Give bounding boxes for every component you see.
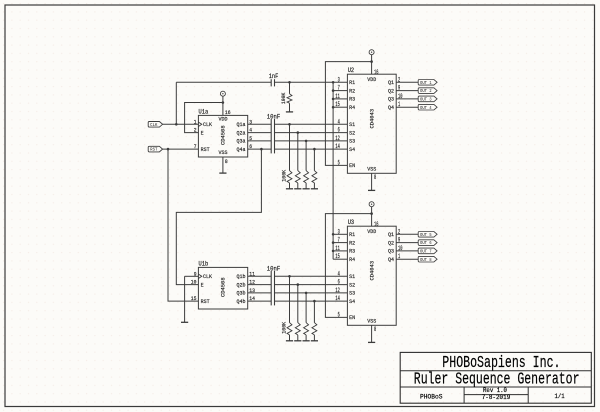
svg-text:11: 11 [335,245,340,252]
wire U1a E to VDD [185,103,223,133]
svg-text:VDD: VDD [219,116,228,123]
svg-text:12: 12 [335,135,340,142]
svg-text:100K: 100K [280,92,287,104]
svg-text:R2: R2 [349,87,355,94]
svg-text:OUT: OUT [420,240,427,246]
svg-text:S4: S4 [349,298,355,305]
junction R bus at U2 R4 [332,106,335,109]
svg-text:15: 15 [335,101,340,108]
svg-text:Rev 1.0: Rev 1.0 [483,387,507,394]
svg-text:3: 3 [338,228,340,235]
resistors R10-R13 100K pull-downs (lower bank) [281,276,317,335]
junction R bus at U3 R3 [332,250,335,253]
title block frame [400,352,591,403]
wires 10nF caps to U2 S inputs [275,123,348,125]
svg-text:CLK: CLK [203,273,212,280]
svg-text:CLK: CLK [150,122,157,128]
svg-text:8: 8 [374,326,376,333]
wire VDD to U2 pin 16 [371,55,373,75]
svg-text:EN: EN [349,314,355,321]
svg-text:VDD: VDD [367,228,376,235]
svg-text:PHOBoS: PHOBoS [420,393,443,400]
ground at U1b CLK [181,276,188,322]
wire VDD to U1a pin 16 [222,96,224,115]
wire RST node down to U1b RST [168,149,198,301]
svg-text:VSS: VSS [219,149,228,156]
wire RST flag to U1a pin 7 [163,148,199,150]
wire U3 EN to VDD [325,214,371,318]
svg-text:7: 7 [338,85,340,92]
svg-text:100K: 100K [281,321,288,333]
svg-text:14: 14 [335,143,340,150]
svg-text:E: E [201,281,204,288]
svg-text:5: 5 [338,311,340,318]
svg-text:1/1: 1/1 [555,393,565,400]
svg-text:EN: EN [349,162,355,169]
wire R bus vertical (R1-R4 of U2 down to R1-R4 of U3) [332,82,334,259]
wires U1b outputs to 10nF caps [248,275,272,277]
junction RST node [167,148,170,151]
svg-text:16: 16 [374,221,379,228]
svg-text:Q4: Q4 [388,104,394,111]
U1a pin numbers [194,109,253,165]
wires U2 outputs to OUT flags [396,81,418,83]
svg-text:Q2: Q2 [388,87,394,94]
ground below U3 VSS pin 8 [368,325,375,342]
power symbol VDD above U2 [369,50,374,55]
wire stub to U3 R3 [333,250,347,252]
capacitor C1 1nF [269,73,279,87]
junction U1a VDD/E node [222,101,225,104]
svg-text:11: 11 [335,93,340,100]
wire stub to U3 R4 [333,258,347,260]
svg-text:1: 1 [194,118,197,125]
svg-text:Q4a: Q4a [237,146,246,153]
junction U2 VDD/EN node [370,60,373,63]
svg-text:RST: RST [150,147,157,153]
svg-text:7-8-2019: 7-8-2019 [482,394,511,401]
svg-text:Q1: Q1 [388,231,394,238]
svg-text:Q4b: Q4b [237,298,246,305]
wire VDD to U3 pin 16 [371,207,373,227]
svg-text:9: 9 [194,270,197,277]
svg-text:4: 4 [429,105,431,111]
svg-text:S3: S3 [349,290,355,297]
svg-text:R4: R4 [349,104,355,111]
svg-text:R1: R1 [349,79,355,86]
quad latch U3 CD4043 box [347,219,396,325]
svg-text:1nF: 1nF [269,73,279,80]
junction R bus at U2 R2 [332,89,335,92]
svg-text:15: 15 [335,253,340,260]
svg-text:16: 16 [225,109,231,116]
wire stub to U3 R2 [333,242,347,244]
wires 10nF caps to U3 S inputs [275,275,348,277]
svg-text:CD4508: CD4508 [220,125,227,145]
svg-text:10nF: 10nF [267,113,281,120]
wire Q4a down/left to U1b E [176,149,261,285]
svg-text:2: 2 [429,88,431,94]
svg-text:14: 14 [335,295,340,302]
junctions S-line pulldown taps (upper) [288,123,316,150]
svg-text:OUT: OUT [420,249,427,255]
svg-text:6: 6 [338,279,340,286]
svg-text:4: 4 [338,270,340,277]
ground below R5 [286,103,293,112]
svg-text:VSS: VSS [367,166,376,173]
junction R bus at U3 R1 [332,233,335,236]
wire U2 EN to VDD [325,62,371,166]
svg-text:Q3a: Q3a [237,138,246,145]
U2 pin numbers [335,69,402,181]
svg-text:Q3: Q3 [388,248,394,255]
svg-text:2: 2 [194,127,197,134]
junction CLK node [175,123,178,126]
svg-text:Q3b: Q3b [237,290,246,297]
svg-text:OUT: OUT [420,88,427,94]
wire U1b CLK to ground [185,275,199,277]
svg-text:8: 8 [225,158,228,165]
svg-text:3: 3 [338,76,340,83]
svg-text:8: 8 [429,257,431,263]
junction R bus at U2 R3 [332,98,335,101]
junction U3 VDD/EN node [370,212,373,215]
svg-text:OUT: OUT [420,257,427,263]
wire stub to U2 R2 [333,90,347,92]
svg-text:CD4043: CD4043 [369,260,376,280]
svg-text:RST: RST [201,146,210,153]
svg-text:5: 5 [338,159,340,166]
svg-text:OUT: OUT [420,105,427,111]
wire 1nF to U2 R1 [275,81,348,83]
quad latch U2 CD4043 box [347,67,396,173]
output flag OUT 2 [418,88,437,94]
svg-text:8: 8 [374,174,376,181]
junctions S-line pulldown taps (lower) [288,275,316,302]
latch U1b CD4508 box [198,260,247,309]
power symbol VDD above U3 [369,202,374,207]
latch U1a CD4508 box [198,108,247,157]
svg-text:CD4508: CD4508 [220,277,227,297]
svg-text:Q1b: Q1b [237,273,246,280]
svg-text:4: 4 [338,118,340,125]
svg-text:R3: R3 [349,248,355,255]
ground below U1a VSS pin 8 [219,157,226,173]
svg-text:15: 15 [191,295,197,302]
svg-text:R3: R3 [349,96,355,103]
capacitor bank C2 10nF [267,113,281,153]
resistor R5 100K pull-down [280,82,292,104]
svg-text:S1: S1 [349,273,355,280]
svg-text:5: 5 [429,232,431,238]
junction R bus at U3 R2 [332,241,335,244]
svg-text:S2: S2 [349,281,355,288]
svg-text:S2: S2 [349,129,355,136]
svg-text:R4: R4 [349,256,355,263]
svg-text:U1a: U1a [199,108,209,115]
svg-text:6: 6 [338,127,340,134]
wire CLK node up to 1nF [175,82,177,124]
output flag OUT 8 [418,256,437,262]
svg-text:VSS: VSS [367,318,376,325]
svg-text:Q2b: Q2b [237,281,246,288]
input flag CLK [148,122,162,128]
svg-text:OUT: OUT [420,80,427,86]
wire stub to U2 R3 [333,98,347,100]
wires U1a outputs to 10nF caps [248,123,272,125]
svg-text:Q4: Q4 [388,256,394,263]
svg-text:S3: S3 [349,138,355,145]
svg-text:OUT: OUT [420,97,427,103]
junction R bus at U2 R1 [332,81,335,84]
output flag OUT 3 [418,96,437,102]
svg-text:7: 7 [338,237,340,244]
svg-text:U3: U3 [348,219,355,226]
svg-text:Q1a: Q1a [237,121,246,128]
svg-text:S4: S4 [349,146,355,153]
svg-text:Q2: Q2 [388,239,394,246]
svg-text:U2: U2 [348,67,355,74]
output flag OUT 7 [418,248,437,254]
svg-text:U1b: U1b [199,260,209,267]
svg-text:Q3: Q3 [388,96,394,103]
svg-text:Q1: Q1 [388,79,394,86]
resistors R6-R9 100K pull-downs (upper bank) [281,124,317,183]
output flag OUT 6 [418,240,437,246]
svg-text:100K: 100K [281,169,288,181]
svg-text:CLK: CLK [203,121,212,128]
wire CLK flag to U1a pin 1 [163,123,199,125]
wire R bus to U3 R1 [333,233,347,235]
svg-text:3: 3 [429,97,431,103]
svg-text:E: E [201,129,204,136]
svg-text:R2: R2 [349,239,355,246]
wire stub to U2 R4 [333,106,347,108]
wire 1nF left segment [176,81,271,83]
grounds below lower resistor bank [286,335,318,341]
junction Q4a to U1b E tap [260,148,263,151]
svg-text:10nF: 10nF [267,265,281,272]
junction R-net at R1 [288,81,291,84]
svg-text:VDD: VDD [367,76,376,83]
svg-text:10: 10 [191,279,197,286]
wires U3 outputs to OUT flags [396,233,418,235]
capacitor bank C3 10nF [267,265,281,305]
output flag OUT 4 [418,104,437,110]
svg-text:12: 12 [335,287,340,294]
input flag RST [148,146,162,152]
svg-text:RST: RST [201,298,210,305]
svg-text:7: 7 [429,249,431,255]
U1b pin numbers [191,270,256,302]
ground below U2 VSS pin 8 [368,173,375,190]
svg-text:CD4043: CD4043 [369,108,376,128]
svg-text:S1: S1 [349,121,355,128]
svg-text:16: 16 [374,69,379,76]
svg-text:1: 1 [429,80,431,86]
svg-text:7: 7 [194,143,197,150]
power symbol VDD above U1a [220,91,225,96]
output flag OUT 5 [418,232,437,238]
svg-text:OUT: OUT [420,232,427,238]
svg-text:Q2a: Q2a [237,129,246,136]
grounds below upper resistor bank [286,183,318,189]
svg-text:6: 6 [429,240,431,246]
U3 pin numbers [335,221,402,333]
svg-text:R1: R1 [349,231,355,238]
output flag OUT 1 [418,80,437,86]
